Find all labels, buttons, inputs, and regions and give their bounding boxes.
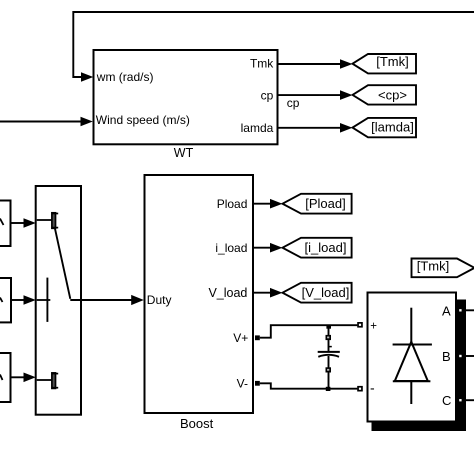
wire arrowhead into Wind speed port <box>81 117 93 127</box>
subsystem block Boost <box>145 175 254 413</box>
input 3 contact marker <box>52 373 56 389</box>
wire source2 to switch <box>11 299 25 301</box>
svg-text:[Tmk]: [Tmk] <box>376 54 409 69</box>
svg-text:-: - <box>370 380 375 396</box>
selector diagonal <box>55 228 70 298</box>
svg-text:[V_load]: [V_load] <box>302 285 350 300</box>
wire lamda output <box>278 127 342 129</box>
svg-text:+: + <box>370 320 377 332</box>
svg-text:B: B <box>442 349 451 364</box>
wire V+ net <box>260 325 358 338</box>
subsystem block WT <box>94 50 278 144</box>
bridge port pad + <box>357 322 363 328</box>
bridge port pad B + stub <box>457 353 474 359</box>
goto tag [lamda] <box>353 118 417 137</box>
svg-text:Duty: Duty <box>147 293 172 307</box>
svg-text:wm (rad/s): wm (rad/s) <box>96 70 154 84</box>
input 1 stub <box>37 219 53 221</box>
from tag [Tmk] <box>412 259 474 278</box>
goto tag [V_load] <box>283 283 352 303</box>
svg-text:V_load: V_load <box>208 286 247 300</box>
source block 1 (cut off) <box>0 201 11 247</box>
svg-text:Pload: Pload <box>217 197 248 211</box>
rectifier block shadow <box>372 300 467 432</box>
svg-text:cp: cp <box>287 96 300 110</box>
junction square on V- net <box>326 387 331 391</box>
goto tag [Pload] <box>283 194 352 214</box>
capacitor C lead + polarity tick <box>329 340 332 352</box>
svg-text:V-: V- <box>237 376 248 390</box>
wire Wind speed input <box>0 121 81 123</box>
svg-text:V+: V+ <box>233 331 248 345</box>
wire source1 to switch <box>11 222 25 224</box>
capacitor bottom port pad <box>326 367 332 372</box>
goto tag <cp> <box>353 85 417 104</box>
svg-text:<cp>: <cp> <box>378 87 407 102</box>
wire V- net <box>260 383 358 388</box>
input 2 stub <box>37 299 51 301</box>
input 3 stub <box>37 379 53 381</box>
wire source3 to switch <box>11 376 25 378</box>
rectifier (universal bridge) block <box>368 293 457 422</box>
svg-text:[i_load]: [i_load] <box>305 240 347 255</box>
bridge port pad - <box>357 386 363 392</box>
svg-text:WT: WT <box>174 146 194 160</box>
goto tag [i_load] <box>283 238 352 258</box>
source block 2 (cut off) <box>0 278 11 322</box>
wire Tmk output <box>278 63 342 65</box>
svg-text:C: C <box>442 393 451 408</box>
diode symbol <box>393 308 432 404</box>
input 2 contact bar <box>46 278 48 322</box>
wire switch output to Duty <box>70 299 133 301</box>
goto tag [Tmk] <box>353 54 417 73</box>
wire Pload output <box>254 203 272 205</box>
wire arrowhead into wm port <box>81 72 93 82</box>
svg-text:cp: cp <box>261 88 274 102</box>
svg-text:i_load: i_load <box>215 241 247 255</box>
capacitor top port pad <box>326 335 332 340</box>
svg-text:[Pload]: [Pload] <box>305 196 345 211</box>
svg-text:Tmk: Tmk <box>250 57 274 71</box>
svg-text:[lamda]: [lamda] <box>371 120 414 135</box>
multiport switch block <box>36 186 81 415</box>
capacitor branch wire upper <box>328 327 330 336</box>
bridge port pad C + stub <box>457 397 474 403</box>
capacitor branch wire lower <box>328 373 330 389</box>
capacitor plates <box>318 352 340 357</box>
wire cp output <box>278 94 342 96</box>
svg-text:Wind speed (m/s): Wind speed (m/s) <box>96 113 190 127</box>
source block 3 (cut off) <box>0 353 11 402</box>
svg-text:[Tmk]: [Tmk] <box>417 259 450 274</box>
capacitor lower lead <box>328 356 330 368</box>
bridge port pad A + stub <box>457 307 474 313</box>
wire V_load output <box>254 292 272 294</box>
port pad V+ <box>255 335 260 340</box>
junction square on V+ net <box>326 325 331 329</box>
port pad V- <box>255 381 260 386</box>
svg-text:A: A <box>442 303 451 318</box>
wire i_load output <box>254 247 272 249</box>
svg-text:Boost: Boost <box>180 416 214 431</box>
svg-text:lamda: lamda <box>241 121 274 135</box>
wire feedback wm net <box>73 12 474 77</box>
input 1 contact marker <box>52 213 56 229</box>
